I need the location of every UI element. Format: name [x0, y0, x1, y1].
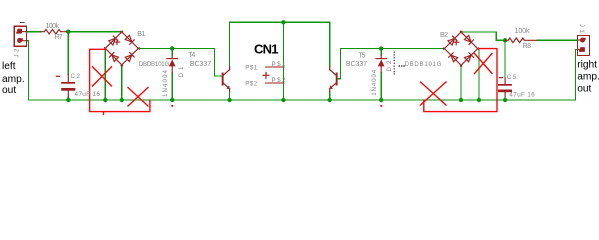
svg-text:T4: T4 [188, 52, 195, 59]
X mark right-lower [421, 82, 447, 105]
wire B1 bottom corner down [121, 65, 123, 100]
svg-text:P$1: P$1 [272, 61, 286, 68]
wire D1 bottom [171, 73, 173, 100]
transistor T5 [329, 67, 337, 92]
svg-text:out: out [2, 85, 16, 96]
wire J2 pin2 stub [27, 41, 67, 100]
diode D2 [376, 55, 387, 73]
node D2 top junction [379, 46, 383, 50]
wire J2 pin1 to R7 [27, 31, 42, 33]
CN1 plus [263, 73, 269, 79]
B1 plus [114, 39, 119, 44]
wire B2 right corner down [478, 49, 479, 100]
node D1 top junction [170, 46, 174, 50]
wire C5 bottom stub [504, 97, 506, 100]
node R8/C5 junction [503, 38, 507, 42]
svg-text:T5: T5 [359, 52, 366, 59]
svg-text:P$2: P$2 [272, 77, 286, 84]
side BR [458, 46, 481, 69]
wire T4 collector up and top rail to T5 collector [230, 22, 330, 67]
side TL [102, 29, 125, 52]
svg-text:47uF 16: 47uF 16 [509, 91, 535, 98]
B2 plus [454, 40, 459, 45]
resistor R7 [41, 29, 67, 34]
wire T5 base to D2 to B2 left corner [341, 49, 445, 79]
svg-text:DBDB101G: DBDB101G [405, 61, 442, 68]
svg-text:amp.: amp. [577, 72, 599, 83]
svg-text:R7: R7 [55, 34, 63, 41]
connector J2 [14, 26, 26, 46]
svg-text:CN1: CN1 [254, 42, 279, 57]
left tick [103, 112, 105, 115]
transistor T4 [222, 67, 230, 92]
wire D2 top stub [380, 49, 382, 55]
wire R7 junction to B1 top corner [67, 31, 122, 33]
wire T4 emitter down [229, 92, 231, 101]
small red mark under D1 [171, 105, 173, 107]
connector J1 [578, 36, 590, 56]
svg-text:47uF 16: 47uF 16 [75, 91, 101, 98]
bridge rectifier B1 [102, 29, 141, 68]
wire bottom rail [67, 99, 576, 101]
svg-text:out: out [577, 84, 591, 95]
wire CN1 vertical [282, 22, 284, 100]
bridge rectifier B2 [441, 29, 480, 68]
svg-text:B2: B2 [440, 32, 448, 39]
X mark left-upper [93, 67, 112, 86]
svg-text:BC337: BC337 [346, 61, 367, 68]
svg-text:1N4004: 1N4004 [162, 69, 169, 97]
J2 top dash [21, 22, 25, 24]
wire D1 top stub [171, 48, 173, 54]
capacitor C2 [56, 75, 75, 97]
side TL [441, 29, 464, 52]
svg-text:J2: J2 [13, 48, 20, 58]
svg-text:left: left [2, 61, 16, 72]
node CN1 top rail junction [281, 20, 285, 24]
resistor R8 [505, 38, 537, 43]
side TR [119, 29, 142, 52]
black texts [2, 59, 599, 96]
svg-text:J1: J1 [578, 24, 585, 34]
capacitor C5 [498, 78, 512, 97]
side BL [441, 46, 464, 69]
rail junction dots [66, 98, 70, 102]
wire J1 pin2 stub down [576, 49, 578, 100]
svg-text:right: right [577, 59, 597, 70]
wire T5 emitter down [329, 92, 331, 101]
side BL [102, 45, 125, 68]
svg-text:P$2: P$2 [245, 81, 257, 88]
wire B2 top corner to R8 junction [461, 32, 505, 40]
svg-text:P$1: P$1 [245, 65, 257, 72]
pin P$2 stub [266, 82, 284, 84]
wire B1 right corner to T4 base [138, 48, 221, 76]
wire R8 to J1 pin1 [537, 39, 578, 41]
svg-text:100k: 100k [515, 28, 531, 35]
wire C2 bottom stub [67, 97, 69, 100]
svg-text:DBDB101G: DBDB101G [139, 61, 170, 68]
wire D2 bottom [380, 73, 382, 100]
side BR [119, 45, 142, 68]
ellipsis dots before right DBDB101G [399, 65, 405, 66]
wire C5 vertical [504, 40, 506, 78]
X mark right-upper [475, 54, 493, 74]
X mark left-lower [128, 88, 148, 107]
wire C2 top vertical [67, 32, 69, 75]
svg-text:100k: 100k [46, 23, 60, 30]
svg-text:1N4004: 1N4004 [371, 69, 378, 96]
dotted marker line near D2 [394, 52, 395, 75]
svg-text:BC337: BC337 [190, 61, 211, 68]
svg-text:R8: R8 [523, 43, 532, 50]
connector CN1 pins [266, 67, 284, 83]
wire B1 left corner down [104, 49, 106, 100]
diode D1 [167, 55, 178, 73]
node R7/C2 junction [66, 30, 70, 34]
small red mark under D2 [380, 105, 382, 107]
right highlight box [424, 49, 497, 112]
wire B2 bottom corner down [460, 65, 462, 100]
svg-text:B1: B1 [137, 31, 145, 38]
svg-text:amp.: amp. [2, 74, 25, 85]
pin P$1 stub [266, 66, 284, 68]
wire T5 base stub [338, 78, 341, 80]
side TR [458, 29, 481, 52]
left highlight box [90, 49, 150, 111]
